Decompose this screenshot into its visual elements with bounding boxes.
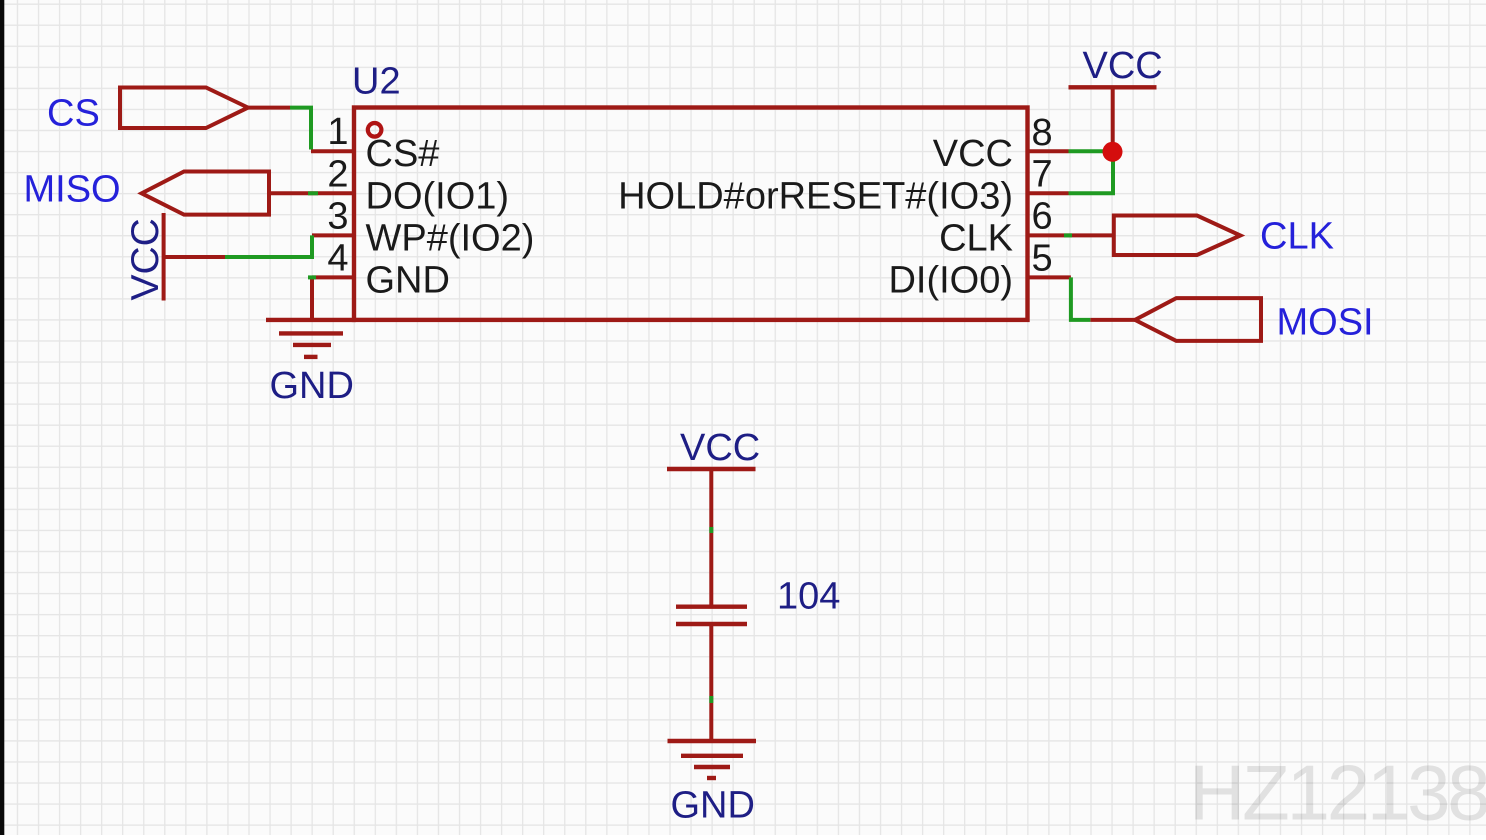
svg-text:2: 2 [327, 153, 348, 195]
svg-text:CS: CS [47, 93, 100, 135]
svg-text:MISO: MISO [24, 168, 121, 210]
svg-text:CLK: CLK [939, 217, 1013, 259]
svg-text:5: 5 [1032, 237, 1053, 279]
svg-text:U2: U2 [352, 60, 401, 102]
svg-text:VCC: VCC [680, 427, 760, 469]
svg-text:VCC: VCC [1083, 45, 1163, 87]
svg-text:MOSI: MOSI [1277, 302, 1374, 344]
svg-text:VCC: VCC [124, 218, 167, 300]
svg-text:1: 1 [327, 111, 348, 153]
svg-text:7: 7 [1032, 153, 1053, 195]
svg-text:GND: GND [671, 785, 755, 827]
svg-text:GND: GND [270, 365, 354, 407]
svg-text:DO(IO1): DO(IO1) [366, 175, 510, 217]
svg-text:DI(IO0): DI(IO0) [888, 259, 1013, 301]
svg-text:GND: GND [366, 259, 450, 301]
svg-text:VCC: VCC [933, 133, 1013, 175]
svg-text:CS#: CS# [366, 133, 440, 175]
svg-text:CLK: CLK [1260, 216, 1334, 258]
svg-text:HOLD#orRESET#(IO3): HOLD#orRESET#(IO3) [618, 175, 1013, 217]
svg-text:3: 3 [327, 195, 348, 237]
svg-text:8: 8 [1032, 112, 1053, 154]
svg-text:104: 104 [777, 575, 840, 617]
svg-text:4: 4 [327, 237, 348, 279]
svg-text:6: 6 [1032, 195, 1053, 237]
svg-text:WP#(IO2): WP#(IO2) [366, 217, 535, 259]
